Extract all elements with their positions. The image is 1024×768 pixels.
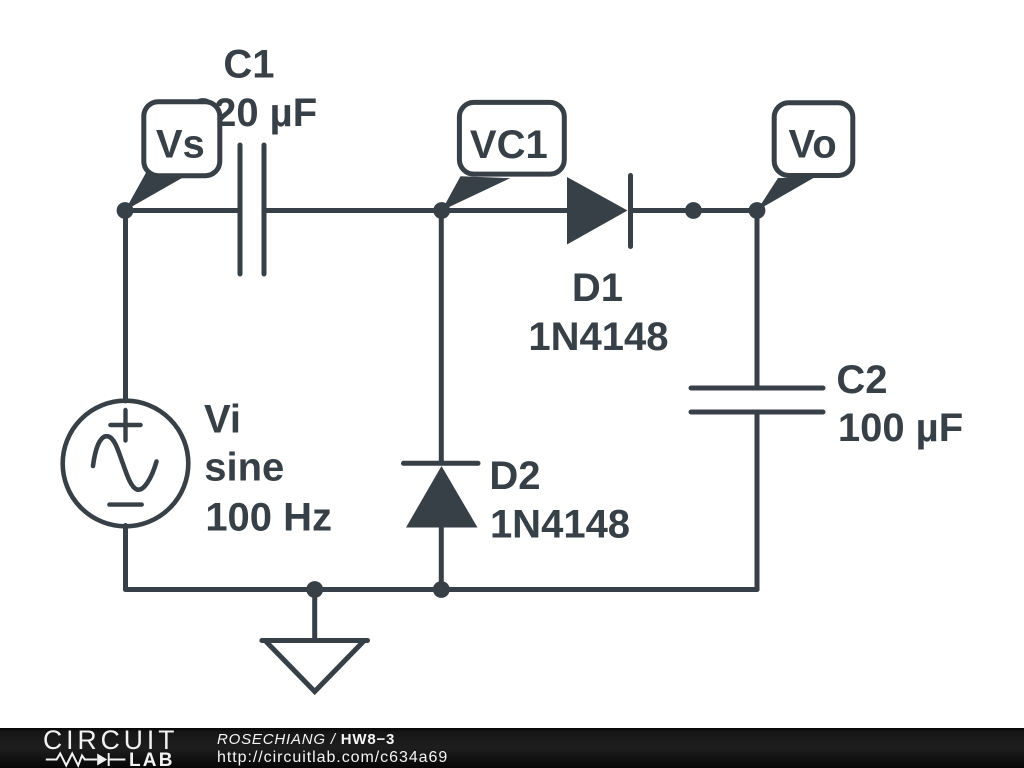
ground [262,590,368,692]
svg-text:D1: D1 [572,266,623,310]
capacitor C1 [240,145,264,274]
net flag Vo [757,103,853,211]
svg-text:D2: D2 [489,454,540,498]
svg-text:http://circuitlab.com/c634a69: http://circuitlab.com/c634a69 [217,749,448,766]
CircuitLab logo resistor-diode symbol [46,753,126,766]
wire: C2 to bottom rail [755,415,760,590]
junction dot at Vo node [749,202,766,219]
svg-text:sine: sine [204,446,284,490]
voltage source Vi [63,401,189,527]
wire: D1 cathode to node Vo [631,208,758,213]
junction dot at VC1 node [433,202,450,219]
svg-text:LAB: LAB [129,750,175,768]
wire: Vi bottom to bottom rail [123,526,128,590]
capacitor C2 [691,388,823,412]
svg-text:ROSECHIANG / HW8−3: ROSECHIANG / HW8−3 [217,731,395,748]
svg-text:Vo: Vo [789,123,837,167]
wire: Vs node to C1 left plate [125,208,238,213]
diode D1 [567,176,631,247]
svg-text:Vs: Vs [156,123,205,167]
svg-text:Vi: Vi [204,398,241,442]
junction dot at ground stem [306,581,323,598]
wire: node VC1 to D1 anode [442,208,567,213]
net flag Vs [125,102,220,211]
wire: bottom rail [126,587,758,592]
wire: node VC1 to D2 cathode bar [439,211,444,462]
svg-text:100 µF: 100 µF [838,406,963,450]
footer bar [0,728,1024,768]
junction dot at Vs node [117,202,134,219]
diode D2 [404,463,479,527]
wire: left vertical (Vs node to Vi top) [123,211,128,402]
svg-text:C1: C1 [223,43,274,87]
svg-text:100 Hz: 100 Hz [205,496,332,540]
svg-text:1N4148: 1N4148 [528,315,668,359]
junction dot between D1 and Vo [685,202,702,219]
wire: right vertical top (Vo node to C2) [755,211,760,386]
junction dot at D2 bottom [433,581,450,598]
net flag VC1 [442,102,565,210]
svg-text:1N4148: 1N4148 [490,503,630,547]
wire: D2 anode to bottom rail [439,527,444,590]
wire: C1 to node VC1 [266,208,442,213]
svg-text:VC1: VC1 [470,123,548,167]
svg-text:C2: C2 [836,358,887,402]
